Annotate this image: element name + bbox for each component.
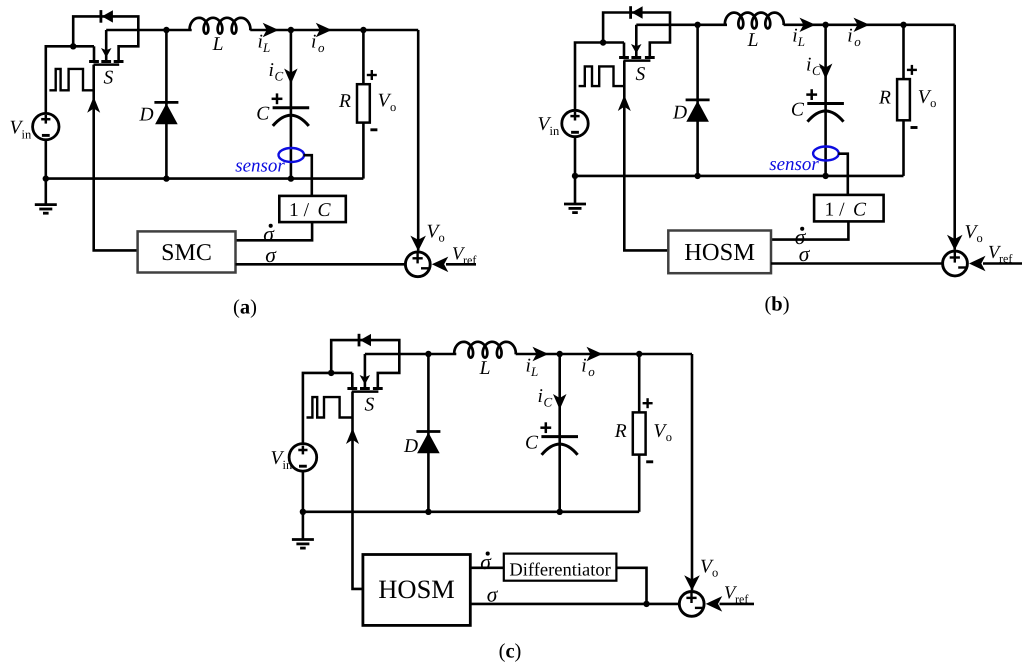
transistor S drain stub with arrow (c) xyxy=(360,354,371,389)
svg-text:i: i xyxy=(311,32,316,53)
arrow V_o into summer (c) xyxy=(684,575,700,591)
wire V_in to switch (b) xyxy=(575,43,624,111)
junction dot capacitor branch (a) xyxy=(288,27,294,33)
V_ref input wire (a) xyxy=(446,263,476,266)
junction dot D top (c) xyxy=(425,351,431,357)
capacitor plus sign (c) xyxy=(540,422,551,433)
label V_ref (c) xyxy=(724,584,748,607)
svg-text:o: o xyxy=(318,40,325,55)
minus sign V_o (b) xyxy=(911,126,918,129)
label D (a) xyxy=(139,105,154,126)
svg-text:(b): (b) xyxy=(764,294,789,316)
label i_C (c) xyxy=(538,386,553,410)
wire drain node (a) xyxy=(106,29,192,32)
arrow V_ref (b) xyxy=(969,256,986,271)
svg-text:C: C xyxy=(791,100,805,121)
svg-text:ref: ref xyxy=(735,592,748,606)
svg-text:L: L xyxy=(747,30,759,51)
svg-text:i: i xyxy=(806,55,811,76)
wire V_in to ground rail (c) xyxy=(302,471,305,512)
gate drive wire (a) xyxy=(94,65,138,251)
svg-text:S: S xyxy=(636,64,646,85)
PWM waveform (a) xyxy=(49,69,93,90)
junction dot sigma line (c) xyxy=(643,601,649,607)
label L (a) xyxy=(212,34,224,55)
label V_o across R (a) xyxy=(378,91,397,114)
junction dot resistor branch (c) xyxy=(636,351,642,357)
wire L to output node (c) xyxy=(516,353,692,356)
label C (b) xyxy=(791,100,805,121)
current arrow i_o (b) xyxy=(854,18,870,32)
ground rail wire (a) xyxy=(46,177,364,180)
svg-text:(a): (a) xyxy=(233,297,257,319)
svg-text:C: C xyxy=(275,69,284,84)
label S (a) xyxy=(104,68,114,89)
junction dot capacitor/rail (c) xyxy=(557,509,563,515)
svg-text:σ: σ xyxy=(487,583,499,607)
svg-text:o: o xyxy=(930,96,936,110)
label i_o (c) xyxy=(581,356,595,380)
svg-text:1 /: 1 / xyxy=(289,200,310,221)
label sigma (b) xyxy=(799,242,811,266)
svg-text:D: D xyxy=(139,105,154,126)
label i_L (c) xyxy=(526,356,539,380)
svg-text:R: R xyxy=(338,91,351,112)
svg-text:i: i xyxy=(847,26,852,47)
label L (b) xyxy=(747,30,759,51)
wire resistor to rail (a) xyxy=(362,123,365,179)
label R (c) xyxy=(614,421,627,442)
arrow V_o into summer (a) xyxy=(410,236,426,252)
capacitor C plates (b) xyxy=(807,104,844,122)
wire V_o feedback (c) xyxy=(691,354,694,590)
block Differentiator (c) xyxy=(504,554,617,581)
wire sensor tap to 1/C (b) xyxy=(838,154,848,195)
voltage source V_in (a) xyxy=(33,113,59,139)
gate drive arrow (b) xyxy=(618,95,631,111)
ground symbol (c) xyxy=(292,512,314,548)
capacitor C plates (a) xyxy=(273,108,310,126)
wire V_in to switch (c) xyxy=(303,373,352,444)
plus sign V_o (a) xyxy=(367,70,377,80)
svg-text:C: C xyxy=(853,200,867,221)
ground rail wire (c) xyxy=(303,510,639,513)
wire V_in to ground rail (b) xyxy=(574,137,577,176)
controller HOSM (b) xyxy=(668,231,771,274)
current arrow i_C (c) xyxy=(553,394,567,410)
svg-text:1 /: 1 / xyxy=(825,200,846,221)
junction dot resistor branch (b) xyxy=(900,22,906,28)
minus sign V_o (c) xyxy=(646,460,653,463)
wire sigma-dot HOSM to differentiator (c) xyxy=(470,566,504,569)
wire capacitor branch (a) xyxy=(290,30,293,179)
wire sigma SMC to summer (a) xyxy=(236,263,405,266)
wire differentiator output (c) xyxy=(616,568,646,604)
arrow V_o into summer (b) xyxy=(947,235,963,251)
svg-text:D: D xyxy=(672,103,687,124)
current arrow i_o (a) xyxy=(316,23,332,37)
svg-text:sensor: sensor xyxy=(769,154,819,175)
current arrow i_L (b) xyxy=(800,18,816,32)
junction dot capacitor branch (b) xyxy=(822,22,828,28)
wire drain node (b) xyxy=(636,23,727,26)
transistor S gate bar (a) xyxy=(94,63,120,66)
svg-text:i: i xyxy=(269,60,274,81)
svg-text:R: R xyxy=(614,421,627,442)
caption (c) xyxy=(499,641,522,663)
junction dot V_in/rail (b) xyxy=(572,173,578,179)
label sigma-dot (b) xyxy=(795,225,807,249)
PWM waveform (b) xyxy=(579,66,625,86)
resistor R (a) xyxy=(357,84,370,122)
svg-text:Differentiator: Differentiator xyxy=(509,561,610,581)
label V_ref (a) xyxy=(452,245,476,268)
svg-text:C: C xyxy=(812,63,821,78)
caption (a) xyxy=(233,297,257,319)
wire sensor tap to 1/C (a) xyxy=(304,155,312,196)
label i_L (b) xyxy=(792,26,805,50)
wire sigma HOSM to summer (b) xyxy=(771,262,942,265)
transistor S left stub (b) xyxy=(623,43,626,58)
wire diode loop (b) xyxy=(603,13,670,58)
svg-text:D: D xyxy=(403,436,418,457)
svg-text:o: o xyxy=(588,364,595,379)
diode D (a) xyxy=(154,30,178,179)
voltage source V_in (b) xyxy=(562,110,588,136)
wire sigma HOSM to summer (c) xyxy=(470,603,678,606)
snubber diode (b) xyxy=(631,6,643,19)
label V_in (b) xyxy=(538,114,560,138)
block 1/C (a) xyxy=(279,196,346,222)
wire to resistor (a) xyxy=(362,30,365,84)
wire diode loop (c) xyxy=(331,340,399,388)
V_ref input wire (c) xyxy=(720,603,755,606)
wire capacitor branch (b) xyxy=(824,25,827,176)
label V_in (a) xyxy=(10,118,32,142)
junction dot D bottom (b) xyxy=(694,173,700,179)
wire V_in to ground rail (a) xyxy=(44,140,47,179)
svg-text:HOSM: HOSM xyxy=(684,239,755,266)
label V_ref (b) xyxy=(988,243,1012,266)
svg-text:i: i xyxy=(581,356,586,377)
resistor R (b) xyxy=(897,79,910,120)
wire to resistor (b) xyxy=(902,25,905,79)
label sigma-dot (a) xyxy=(263,222,275,246)
junction dot node gate-loop (a) xyxy=(70,43,76,49)
summing junction (a) xyxy=(405,252,430,277)
svg-text:C: C xyxy=(256,104,270,125)
svg-text:o: o xyxy=(666,430,672,444)
svg-text:L: L xyxy=(797,34,805,49)
label sigma-dot (c) xyxy=(480,550,492,574)
capacitor C plates (c) xyxy=(541,437,578,455)
current arrow i_C (a) xyxy=(284,69,298,85)
capacitor plus sign (a) xyxy=(272,93,283,104)
resistor R (c) xyxy=(633,412,646,454)
transistor S drain stub with arrow (a) xyxy=(101,30,112,62)
svg-text:HOSM: HOSM xyxy=(378,574,455,604)
transistor S drain stub with arrow (b) xyxy=(631,25,642,58)
caption (b) xyxy=(764,294,789,316)
wire L to output node (b) xyxy=(784,23,955,26)
diode D (b) xyxy=(686,25,710,176)
junction dot D bottom (c) xyxy=(425,509,431,515)
inductor L (c) xyxy=(454,342,516,358)
current arrow i_o (c) xyxy=(587,347,603,361)
transistor S left stub (c) xyxy=(351,373,354,389)
PWM waveform (c) xyxy=(307,397,353,417)
capacitor plus sign (b) xyxy=(806,89,817,100)
transistor S gate bar (c) xyxy=(352,390,379,393)
summing junction (b) xyxy=(943,251,968,276)
svg-text:o: o xyxy=(977,231,983,245)
svg-text:L: L xyxy=(262,40,270,55)
junction dot V_in/rail (c) xyxy=(300,509,306,515)
wire capacitor branch (c) xyxy=(558,354,561,512)
wire V_in to switch (a) xyxy=(46,46,94,113)
gate drive wire (c) xyxy=(353,392,363,589)
label C (c) xyxy=(525,433,539,454)
svg-text:L: L xyxy=(530,364,538,379)
wire diode loop (a) xyxy=(73,16,138,61)
label V_o feedback (b) xyxy=(965,222,983,245)
label i_o (a) xyxy=(311,32,325,56)
junction dot capacitor branch (c) xyxy=(557,351,563,357)
svg-text:(c): (c) xyxy=(499,641,522,663)
svg-text:o: o xyxy=(712,566,718,580)
junction dot D bottom (a) xyxy=(163,175,169,181)
controller HOSM (c) xyxy=(363,555,470,626)
current sensor ellipse (a) xyxy=(279,148,305,162)
current sensor ellipse (b) xyxy=(813,147,839,161)
snubber diode (a) xyxy=(101,10,113,23)
gate drive arrow (a) xyxy=(87,97,100,113)
label sigma (c) xyxy=(487,583,499,607)
summing junction (c) xyxy=(679,592,704,617)
svg-text:σ: σ xyxy=(265,243,277,267)
svg-text:C: C xyxy=(544,395,553,410)
svg-text:C: C xyxy=(525,433,539,454)
svg-text:ref: ref xyxy=(463,253,476,267)
junction dot node gate-loop (b) xyxy=(600,39,606,45)
svg-text:o: o xyxy=(439,231,445,245)
label D (b) xyxy=(672,103,687,124)
gate drive wire (b) xyxy=(624,61,668,251)
label V_in (c) xyxy=(271,448,293,472)
gate drive arrow (c) xyxy=(346,428,359,444)
label R (a) xyxy=(338,91,351,112)
label S (c) xyxy=(365,395,375,416)
label S (b) xyxy=(636,64,646,85)
junction dot node gate-loop (c) xyxy=(328,370,334,376)
svg-text:ref: ref xyxy=(999,252,1012,266)
block 1/C (b) xyxy=(814,195,884,222)
wire resistor to rail (b) xyxy=(902,120,905,176)
label V_o feedback (c) xyxy=(700,557,718,580)
ground symbol (b) xyxy=(564,176,586,213)
transistor S left stub (a) xyxy=(93,46,96,61)
wire to resistor (c) xyxy=(638,354,641,412)
label i_C (b) xyxy=(806,55,821,79)
junction dot resistor branch (a) xyxy=(360,27,366,33)
plus sign V_o (b) xyxy=(907,65,917,75)
wire V_o feedback (a) xyxy=(417,30,420,251)
transistor S contact pads (a) xyxy=(89,60,123,63)
wire resistor to rail (c) xyxy=(638,455,641,512)
ground rail wire (b) xyxy=(575,175,904,178)
label i_C (a) xyxy=(269,60,284,84)
junction dot D top (a) xyxy=(163,27,169,33)
label C (a) xyxy=(256,104,270,125)
current arrow i_C (b) xyxy=(819,64,833,80)
wire 1/C to SMC (a) xyxy=(236,221,313,240)
diode D (c) xyxy=(416,354,440,512)
plus sign V_o (c) xyxy=(643,398,653,408)
svg-text:σ: σ xyxy=(799,242,811,266)
svg-text:L: L xyxy=(479,358,491,379)
svg-text:S: S xyxy=(365,395,375,416)
junction dot capacitor/rail (a) xyxy=(288,175,294,181)
svg-text:sensor: sensor xyxy=(235,156,285,177)
inductor L (b) xyxy=(725,13,784,29)
svg-text:o: o xyxy=(854,34,861,49)
svg-text:in: in xyxy=(550,124,560,138)
junction dot D top (b) xyxy=(694,22,700,28)
svg-text:SMC: SMC xyxy=(161,240,212,266)
current arrow i_L (a) xyxy=(263,23,279,37)
label V_o across R (b) xyxy=(918,87,937,110)
junction dot capacitor/rail (b) xyxy=(822,173,828,179)
arrow V_ref (a) xyxy=(432,257,449,273)
arrow V_ref (c) xyxy=(706,596,723,612)
wire 1/C to HOSM (b) xyxy=(771,221,848,239)
svg-text:i: i xyxy=(538,386,543,407)
svg-text:in: in xyxy=(283,458,293,472)
current arrow i_L (c) xyxy=(533,347,549,361)
junction dot V_in/rail (a) xyxy=(43,175,49,181)
svg-text:S: S xyxy=(104,68,114,89)
svg-text:in: in xyxy=(22,128,32,142)
label V_o across R (c) xyxy=(653,421,672,444)
svg-text:R: R xyxy=(878,87,891,108)
inductor L (a) xyxy=(190,18,251,34)
label i_o (b) xyxy=(847,26,861,50)
label R (b) xyxy=(878,87,891,108)
transistor S contact pads (c) xyxy=(347,387,382,390)
label V_o feedback (a) xyxy=(427,222,445,245)
ground symbol (a) xyxy=(35,179,57,214)
wire V_o feedback (b) xyxy=(953,25,956,250)
minus sign V_o (a) xyxy=(370,128,377,131)
wire drain node (c) xyxy=(365,353,456,356)
transistor S gate bar (b) xyxy=(624,59,651,62)
snubber diode (c) xyxy=(359,334,371,347)
label D (c) xyxy=(403,436,418,457)
V_ref input wire (b) xyxy=(983,262,1022,265)
label i_L (a) xyxy=(258,32,271,56)
label sensor (a) xyxy=(235,156,285,177)
svg-text:C: C xyxy=(318,200,332,221)
transistor S contact pads (b) xyxy=(619,56,655,59)
svg-text:L: L xyxy=(212,34,224,55)
label L (c) xyxy=(479,358,491,379)
wire L to output node (a) xyxy=(250,29,418,32)
label sensor (b) xyxy=(769,154,819,175)
label sigma (a) xyxy=(265,243,277,267)
svg-text:o: o xyxy=(390,100,396,114)
controller SMC (a) xyxy=(138,231,236,272)
voltage source V_in (c) xyxy=(289,444,317,472)
